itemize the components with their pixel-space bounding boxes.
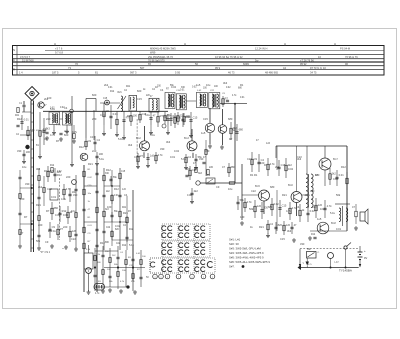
svg-text:C15: C15 <box>282 203 287 207</box>
svg-text:R7: R7 <box>24 215 28 219</box>
svg-text:56k: 56k <box>249 207 254 211</box>
svg-text:0.02: 0.02 <box>333 177 339 181</box>
svg-text:4.7k: 4.7k <box>185 115 191 119</box>
svg-text:10u: 10u <box>206 83 211 87</box>
svg-text:3k3: 3k3 <box>36 167 41 171</box>
svg-text:0.01: 0.01 <box>240 97 245 99</box>
svg-text:R7: R7 <box>46 209 50 213</box>
svg-text:3k3: 3k3 <box>128 143 133 147</box>
svg-text:4.7k: 4.7k <box>61 197 67 201</box>
svg-text:C9: C9 <box>52 225 56 229</box>
svg-text:R12: R12 <box>57 173 62 177</box>
svg-text:6699: 6699 <box>243 62 249 66</box>
svg-text:+: + <box>364 249 366 253</box>
svg-text:820: 820 <box>186 167 191 171</box>
svg-text:S#4: 3W5-4WL-3W5+4P5 9: S#4: 3W5-4WL-3W5+4P5 9 <box>229 251 264 255</box>
svg-text:C9: C9 <box>69 122 73 126</box>
svg-text:10u: 10u <box>228 187 233 191</box>
svg-text:R21: R21 <box>88 162 93 166</box>
svg-text:R12: R12 <box>44 169 49 173</box>
svg-text:S#1: L#1: S#1: L#1 <box>229 238 241 242</box>
svg-text:3k3: 3k3 <box>223 81 228 85</box>
svg-text:R12: R12 <box>110 91 115 93</box>
svg-text:1u5: 1u5 <box>266 142 271 145</box>
svg-text:2k2: 2k2 <box>104 83 109 87</box>
svg-text:S: S <box>13 48 15 52</box>
svg-text:680: 680 <box>231 165 236 169</box>
svg-text:330: 330 <box>160 147 165 151</box>
svg-text:3k3: 3k3 <box>166 140 171 144</box>
svg-text:0.01: 0.01 <box>108 87 113 89</box>
svg-text:BG2: BG2 <box>136 137 141 140</box>
svg-text:680: 680 <box>54 206 59 210</box>
svg-text:BG3: BG3 <box>184 137 189 140</box>
svg-text:C15: C15 <box>100 113 105 117</box>
svg-text:56k: 56k <box>336 193 341 197</box>
svg-text:C15: C15 <box>137 97 142 101</box>
svg-text:2k2: 2k2 <box>288 163 293 167</box>
svg-text:BG8: BG8 <box>331 222 336 225</box>
svg-text:330: 330 <box>199 157 204 161</box>
svg-text:820: 820 <box>64 133 69 137</box>
svg-text:220: 220 <box>64 129 69 133</box>
svg-text:76 96 H 76: 76 96 H 76 <box>345 55 358 59</box>
svg-text:R12: R12 <box>17 117 22 121</box>
svg-text:R12: R12 <box>106 168 111 172</box>
svg-text:BG5: BG5 <box>255 185 260 188</box>
svg-text:R12: R12 <box>114 187 119 191</box>
svg-text:+7 26 76 96: +7 26 76 96 <box>300 59 314 63</box>
svg-text:R21: R21 <box>15 115 20 117</box>
svg-text:4.7k: 4.7k <box>327 204 333 208</box>
svg-text:C9: C9 <box>106 109 110 113</box>
svg-text:R7: R7 <box>229 137 233 141</box>
svg-text:187 5: 187 5 <box>52 71 59 75</box>
svg-text:51 967/68: 51 967/68 <box>22 59 34 63</box>
svg-text:R7: R7 <box>140 154 144 158</box>
svg-text:330: 330 <box>17 149 22 153</box>
svg-text:330: 330 <box>25 182 30 186</box>
svg-text:76 96 9a9.970: 76 96 9a9.970 <box>148 59 165 63</box>
svg-text:C9: C9 <box>216 185 220 189</box>
svg-text:0.02: 0.02 <box>174 149 180 153</box>
svg-text:0.01: 0.01 <box>180 90 185 92</box>
svg-text:C15: C15 <box>192 168 197 172</box>
svg-text:R1: R1 <box>240 83 244 87</box>
svg-text:R1: R1 <box>254 173 258 177</box>
svg-text:3k3: 3k3 <box>198 172 203 175</box>
svg-text:C9: C9 <box>45 240 49 244</box>
svg-text:3k3: 3k3 <box>206 173 211 177</box>
svg-text:220: 220 <box>92 117 97 121</box>
svg-text:C22: C22 <box>106 227 111 229</box>
svg-text:220: 220 <box>46 117 51 121</box>
svg-text:TY145BA: TY145BA <box>339 269 352 273</box>
svg-text:10u: 10u <box>320 207 325 211</box>
svg-text:997 3: 997 3 <box>130 71 137 75</box>
svg-text:R21: R21 <box>118 92 123 94</box>
svg-text:C22: C22 <box>247 157 252 161</box>
svg-text:0.02: 0.02 <box>171 85 177 89</box>
svg-text:820: 820 <box>232 128 237 132</box>
svg-text:330: 330 <box>310 189 315 193</box>
svg-text:10u: 10u <box>71 209 76 213</box>
svg-text:R21: R21 <box>126 86 131 88</box>
svg-text:C15: C15 <box>280 237 285 241</box>
svg-text:R12: R12 <box>341 165 346 169</box>
svg-text:220: 220 <box>38 223 43 227</box>
svg-text:330: 330 <box>300 242 305 246</box>
svg-text:680: 680 <box>239 127 244 131</box>
svg-text:0.02: 0.02 <box>288 167 294 171</box>
svg-text:100: 100 <box>260 161 265 165</box>
svg-text:4.7k: 4.7k <box>247 200 253 204</box>
svg-text:4.7k: 4.7k <box>66 187 72 191</box>
svg-text:680: 680 <box>228 117 233 121</box>
svg-text:3k3: 3k3 <box>297 157 302 161</box>
svg-text:0.02: 0.02 <box>226 87 231 89</box>
svg-text:BG7: BG7 <box>333 158 338 161</box>
svg-text:0.01: 0.01 <box>24 117 30 121</box>
svg-text:C22: C22 <box>71 237 76 241</box>
svg-text:1u5: 1u5 <box>286 223 291 227</box>
svg-text:4.7k: 4.7k <box>286 209 292 213</box>
svg-text:C9: C9 <box>43 127 47 131</box>
svg-text:0.01: 0.01 <box>336 227 342 231</box>
svg-text:820: 820 <box>278 223 283 227</box>
svg-text:M9046L45 M29A 3W5: M9046L45 M29A 3W5 <box>150 46 176 50</box>
svg-text:97 73 9. 9. 10: 97 73 9. 9. 10 <box>310 66 326 70</box>
svg-text:100: 100 <box>133 113 138 117</box>
svg-text:C15: C15 <box>134 155 139 159</box>
svg-text:C15: C15 <box>90 135 95 139</box>
svg-text:**: ** <box>62 248 64 251</box>
svg-text:C4: C4 <box>160 88 164 92</box>
svg-text:4.7k: 4.7k <box>50 133 56 137</box>
svg-text:R21: R21 <box>259 225 264 229</box>
svg-text:C15: C15 <box>103 98 108 100</box>
svg-text:100: 100 <box>240 215 245 219</box>
svg-text:56k: 56k <box>36 239 41 243</box>
svg-text:95 9: 95 9 <box>215 66 221 70</box>
svg-text:PS 04-M: PS 04-M <box>340 46 350 50</box>
svg-text:820: 820 <box>50 169 55 173</box>
svg-text:2k2: 2k2 <box>275 165 280 169</box>
svg-text:680: 680 <box>270 185 275 189</box>
svg-text:S#2: 3#: S#2: 3# <box>229 242 239 246</box>
svg-text:C22: C22 <box>116 243 121 245</box>
svg-text:4.7k: 4.7k <box>158 153 164 157</box>
svg-text:34 75: 34 75 <box>310 71 317 75</box>
svg-text:R12: R12 <box>122 245 127 247</box>
svg-text:C15: C15 <box>121 171 126 173</box>
svg-text:R12: R12 <box>50 165 55 167</box>
svg-text:9.7.6.8: 9.7.6.8 <box>55 51 63 55</box>
svg-text:4.7k: 4.7k <box>56 123 62 127</box>
svg-text:16 96 94 6w 76 96 H 32: 16 96 94 6w 76 96 H 32 <box>215 55 243 59</box>
svg-text:S#5: 3W5+4WL-4W5-4P5 9: S#5: 3W5+4WL-4W5-4P5 9 <box>229 256 264 260</box>
svg-text:29L P09/5A92L 36 76: 29L P09/5A92L 36 76 <box>148 55 173 59</box>
svg-text:5.1k: 5.1k <box>99 157 105 161</box>
svg-text:3k3: 3k3 <box>287 229 292 233</box>
svg-text:9V: 9V <box>364 256 367 260</box>
svg-text:220: 220 <box>48 229 53 233</box>
svg-text:0.01: 0.01 <box>55 213 61 217</box>
svg-text:820: 820 <box>137 89 142 93</box>
svg-text:+3 7 6: +3 7 6 <box>55 46 63 50</box>
svg-text:R12: R12 <box>62 209 67 213</box>
svg-text:R12: R12 <box>311 234 316 236</box>
svg-text:S#7.: S#7. <box>229 265 235 269</box>
svg-text:1u5: 1u5 <box>317 217 322 221</box>
svg-text:100: 100 <box>26 150 31 154</box>
svg-text:5 95: 5 95 <box>175 71 181 75</box>
svg-text:R1: R1 <box>250 173 254 177</box>
svg-text:R21: R21 <box>123 211 128 215</box>
svg-text:10u: 10u <box>22 165 27 169</box>
svg-text:5.1k: 5.1k <box>118 137 124 141</box>
svg-text:4.7k: 4.7k <box>30 128 36 132</box>
svg-text:C4: C4 <box>64 106 68 110</box>
svg-text:C22: C22 <box>312 205 317 209</box>
svg-text:0.01: 0.01 <box>170 155 176 159</box>
svg-text:5.1k: 5.1k <box>150 133 156 137</box>
svg-text:R12: R12 <box>79 145 84 149</box>
svg-text:0.02: 0.02 <box>57 171 62 173</box>
svg-text:100: 100 <box>99 152 104 156</box>
svg-text:R12: R12 <box>129 229 134 231</box>
svg-text:1u5: 1u5 <box>196 83 201 87</box>
svg-text:R7: R7 <box>264 163 268 167</box>
svg-text:0.02: 0.02 <box>115 224 121 228</box>
svg-text:330: 330 <box>73 193 78 197</box>
svg-text:R7: R7 <box>56 139 60 143</box>
svg-text:0.02: 0.02 <box>310 209 316 213</box>
svg-text:0.01: 0.01 <box>113 112 119 116</box>
svg-text:LA?: LA? <box>335 261 340 264</box>
svg-text:C4: C4 <box>270 222 274 226</box>
svg-text:5w: 5w <box>255 59 258 63</box>
svg-text:567: 567 <box>140 66 145 70</box>
svg-text:1u5: 1u5 <box>318 203 323 207</box>
svg-text:220: 220 <box>63 225 68 229</box>
svg-text:3 6 5 6 7: 3 6 5 6 7 <box>20 55 31 59</box>
svg-text:46 73: 46 73 <box>228 71 235 75</box>
svg-text:*R* 47k 2: *R* 47k 2 <box>40 251 51 254</box>
svg-text:1u5: 1u5 <box>257 204 262 208</box>
svg-text:C4: C4 <box>296 205 300 209</box>
svg-text:0.02: 0.02 <box>50 108 55 110</box>
svg-text:12.24 IN H: 12.24 IN H <box>255 46 268 50</box>
svg-text:C4: C4 <box>124 193 128 197</box>
svg-text:680: 680 <box>268 205 273 209</box>
svg-text:5.1k: 5.1k <box>129 243 135 247</box>
svg-text:R21: R21 <box>122 207 127 209</box>
svg-text:R7: R7 <box>225 96 229 100</box>
svg-text:48 486 965: 48 486 965 <box>265 71 279 75</box>
svg-text:220: 220 <box>92 149 97 153</box>
svg-text:C9: C9 <box>88 139 92 143</box>
svg-text:BG6: BG6 <box>288 184 293 187</box>
svg-text:1u5: 1u5 <box>150 153 155 157</box>
svg-text:100: 100 <box>47 96 52 100</box>
svg-text:C15: C15 <box>193 115 198 119</box>
svg-text:R21: R21 <box>127 114 132 118</box>
svg-text:R21: R21 <box>36 203 41 207</box>
svg-text:100: 100 <box>107 205 112 209</box>
svg-text:C15: C15 <box>281 163 286 167</box>
svg-text:C22: C22 <box>251 189 256 193</box>
svg-text:1u5: 1u5 <box>201 131 206 135</box>
svg-text:C15: C15 <box>203 117 208 121</box>
svg-text:220: 220 <box>20 197 25 201</box>
svg-text:0.01: 0.01 <box>63 213 69 217</box>
svg-text:S#3: 3W5-5WL-3PU-L#M: S#3: 3W5-5WL-3PU-L#M <box>229 247 261 251</box>
svg-text:C4: C4 <box>188 155 192 159</box>
svg-text:S#6: 5W5+9LL-9W5-9W5+9P5 9: S#6: 5W5+9LL-9W5-9W5+9P5 9 <box>229 260 270 264</box>
svg-text:0.02: 0.02 <box>60 107 65 109</box>
svg-text:R7: R7 <box>20 231 24 235</box>
svg-text:5.1k: 5.1k <box>330 211 336 215</box>
svg-text:0.01: 0.01 <box>51 195 57 199</box>
svg-text:W99: W99 <box>150 51 156 55</box>
svg-text:2k2: 2k2 <box>194 189 199 193</box>
svg-text:4.7k: 4.7k <box>305 193 311 197</box>
svg-text:R21: R21 <box>282 193 287 197</box>
svg-text:1 4: 1 4 <box>19 71 23 75</box>
svg-text:95 92: 95 92 <box>300 62 307 66</box>
svg-text:C4: C4 <box>97 138 101 142</box>
svg-text:2k2: 2k2 <box>332 171 337 175</box>
svg-text:56k: 56k <box>240 198 245 202</box>
svg-text:5.1k: 5.1k <box>181 157 187 161</box>
svg-text:2k2: 2k2 <box>38 185 43 189</box>
svg-text:R12: R12 <box>100 241 105 245</box>
svg-text:220: 220 <box>209 166 214 169</box>
svg-text:0.02: 0.02 <box>274 202 280 206</box>
svg-text:0.01: 0.01 <box>339 173 345 177</box>
svg-text:C9: C9 <box>254 157 258 161</box>
svg-text:220: 220 <box>66 175 71 179</box>
svg-text:820: 820 <box>92 93 97 97</box>
svg-text:C22: C22 <box>47 187 52 191</box>
svg-text:5.1k: 5.1k <box>145 113 151 117</box>
